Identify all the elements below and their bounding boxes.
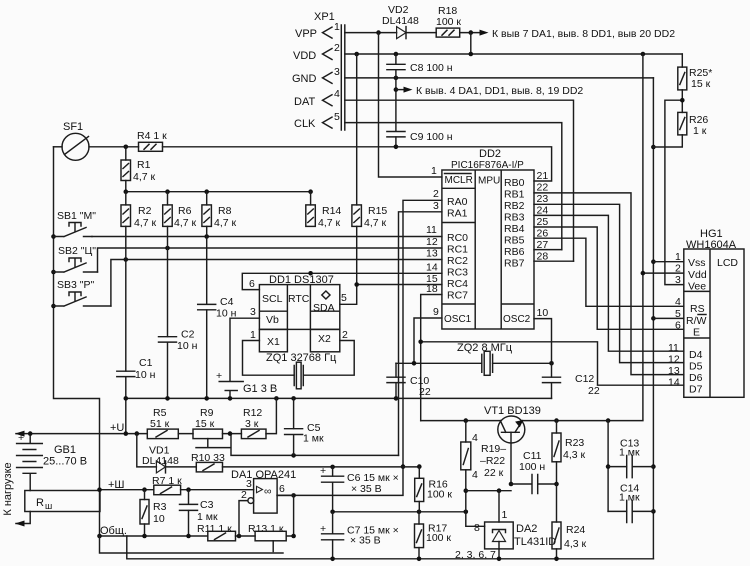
- wire RC7 to D7 line: [421, 295, 684, 421]
- svg-text:VDD: VDD: [293, 50, 316, 62]
- arrow to DA1 DD1 DD2 power: [480, 28, 676, 40]
- svg-text:100 к: 100 к: [426, 532, 451, 544]
- arrow to DA1 DD1 DD2 ground: [396, 85, 584, 97]
- svg-text:RB6: RB6: [504, 246, 525, 258]
- resistor R13 with tap: [248, 523, 286, 552]
- svg-text:4,7 к: 4,7 к: [214, 217, 237, 229]
- wire RA1 column: [399, 212, 442, 456]
- svg-text:51 к: 51 к: [150, 418, 170, 430]
- capacitor C5: [285, 398, 324, 455]
- resistor R18: [436, 5, 461, 37]
- wire main common rail: [126, 397, 552, 399]
- opamp DA1 OPA241: [231, 469, 296, 513]
- svg-text:4,3 к: 4,3 к: [563, 449, 586, 461]
- wire divider tap row: [231, 434, 399, 456]
- svg-text:4: 4: [472, 432, 478, 444]
- capacitor C3: [180, 490, 218, 536]
- wire X2 pin 2 loop: [304, 341, 355, 376]
- svg-text:XP1: XP1: [314, 11, 335, 23]
- IC DD1 DS1307: [259, 274, 339, 352]
- svg-text:4,7 к: 4,7 к: [133, 171, 156, 183]
- wire RC3 line to SCL pin 6: [242, 273, 442, 289]
- svg-text:1 к: 1 к: [693, 125, 707, 137]
- svg-text:OSC1: OSC1: [444, 314, 472, 325]
- wire Vdd pin 2: [643, 272, 684, 274]
- wire RB6 stub: [534, 249, 562, 251]
- wire MCLR pin 1: [379, 33, 442, 177]
- capacitor C14: [608, 483, 653, 523]
- svg-text:3: 3: [246, 478, 252, 490]
- svg-text:VPP: VPP: [295, 28, 317, 40]
- svg-text:R14: R14: [322, 205, 341, 217]
- svg-text:К нагрузке: К нагрузке: [2, 462, 14, 515]
- wire R18 to VDD row: [470, 33, 472, 54]
- svg-text:6: 6: [249, 278, 255, 290]
- resistor R16: [415, 467, 453, 512]
- diode VD2: [382, 4, 419, 39]
- wire GND to C9 column: [395, 78, 397, 131]
- resistor R3: [140, 490, 167, 536]
- svg-text:R1: R1: [137, 159, 151, 171]
- svg-text:1 мк: 1 мк: [619, 492, 640, 504]
- wire RW pin 5: [653, 317, 683, 319]
- svg-text:RC2: RC2: [447, 255, 468, 267]
- svg-text:3: 3: [675, 274, 681, 286]
- battery G1: [216, 370, 277, 398]
- wire Общ rail: [100, 535, 294, 537]
- svg-text:Vdd: Vdd: [688, 269, 707, 281]
- svg-text:+: +: [320, 465, 326, 477]
- svg-text:D7: D7: [689, 384, 703, 396]
- svg-text:R4 1 к: R4 1 к: [137, 130, 167, 142]
- svg-text:15 к: 15 к: [195, 418, 215, 430]
- wire OSC2 pin 10: [534, 319, 552, 364]
- svg-text:C8 100 н: C8 100 н: [410, 62, 453, 74]
- resistor R5: [147, 407, 178, 439]
- svg-text:RB1: RB1: [504, 189, 525, 201]
- wire R2 column to C1: [125, 226, 127, 371]
- svg-text:SCL: SCL: [262, 293, 283, 305]
- resistor R24: [552, 484, 587, 559]
- svg-text:RB3: RB3: [504, 212, 525, 224]
- IC DA2 TL431ID: [455, 522, 556, 561]
- battery GB1: [17, 432, 87, 491]
- wire X1 pin 1 loop: [243, 341, 295, 376]
- svg-text:11: 11: [668, 342, 679, 354]
- resistor network R19-R22: [461, 421, 506, 527]
- wire bottom rail: [127, 536, 654, 559]
- capacitor C12: [543, 363, 600, 398]
- svg-text:LCD: LCD: [717, 257, 738, 269]
- svg-text:1: 1: [334, 21, 340, 33]
- svg-text:22: 22: [588, 385, 600, 397]
- svg-text:C2: C2: [181, 329, 195, 341]
- svg-text:R6: R6: [178, 205, 192, 217]
- wire RB3 to D4: [534, 215, 684, 351]
- svg-text:4,7 к: 4,7 к: [134, 217, 157, 229]
- transistor VT1 BD139: [484, 405, 541, 484]
- capacitor C1: [117, 357, 156, 433]
- resistor R25: [678, 54, 713, 90]
- svg-text:10: 10: [537, 307, 549, 319]
- resistor R11: [197, 523, 236, 541]
- wire VDD long vertical: [642, 54, 644, 420]
- crystal ZQ2 8 МГц: [396, 342, 554, 375]
- svg-text:10 н: 10 н: [135, 369, 156, 381]
- svg-text:25...70 В: 25...70 В: [43, 456, 87, 468]
- svg-text:SF1: SF1: [63, 121, 83, 133]
- svg-text:100 к: 100 к: [427, 489, 452, 501]
- svg-text:RB2: RB2: [504, 200, 525, 212]
- svg-text:4: 4: [675, 296, 681, 308]
- svg-text:DAT: DAT: [294, 96, 315, 108]
- wire SB2 line to RC1: [98, 248, 442, 272]
- wire mid cap row: [333, 511, 466, 513]
- shunt Rш: [15, 491, 100, 527]
- svg-text:15 к: 15 к: [691, 78, 711, 90]
- svg-text:X1: X1: [267, 336, 280, 348]
- svg-text:3: 3: [433, 200, 439, 212]
- wire R6 column to C2: [167, 226, 169, 336]
- svg-text:CLK: CLK: [294, 118, 316, 130]
- wire OSC1 pin 9: [414, 318, 442, 363]
- svg-text:R13 1 к: R13 1 к: [248, 523, 284, 535]
- svg-text:DD2: DD2: [479, 148, 501, 160]
- capacitor C9: [387, 131, 453, 147]
- connector XP1: [292, 11, 345, 130]
- svg-text:4: 4: [334, 88, 340, 100]
- svg-text:R3: R3: [153, 501, 167, 513]
- svg-text:R/W: R/W: [686, 315, 707, 327]
- svg-text:2: 2: [241, 489, 247, 501]
- svg-text:4,7 к: 4,7 к: [174, 217, 197, 229]
- svg-text:1: 1: [675, 251, 681, 263]
- svg-text:Vb: Vb: [266, 314, 279, 326]
- wire RB7 stub: [534, 260, 574, 262]
- capacitor C8: [387, 54, 453, 78]
- wire R26 bottom to GND vertical: [653, 135, 682, 147]
- svg-text:MPU: MPU: [478, 176, 500, 187]
- svg-text:DA2: DA2: [516, 523, 537, 535]
- svg-text:ш: ш: [45, 501, 52, 511]
- svg-text:R11 1 к: R11 1 к: [197, 523, 232, 535]
- resistor R1: [121, 147, 156, 192]
- resistor R2: [121, 192, 157, 229]
- wire R25 R26 junction to Vee: [665, 90, 684, 285]
- switch SF1: [54, 121, 90, 160]
- IC DD2 PIC16F876A: [442, 148, 534, 329]
- wire CLK row to RB6: [345, 123, 562, 250]
- wire R8 column to C4: [206, 226, 208, 304]
- svg-text:4,3 к: 4,3 к: [564, 538, 587, 550]
- svg-text:MCLR: MCLR: [445, 175, 473, 186]
- svg-text:14: 14: [668, 377, 680, 389]
- svg-text:22 к: 22 к: [484, 467, 504, 479]
- resistor R7: [152, 475, 182, 495]
- junction MCLR tap: [376, 30, 381, 35]
- svg-text:R2: R2: [138, 205, 152, 217]
- svg-text:1: 1: [502, 509, 508, 521]
- svg-text:2: 2: [334, 42, 340, 54]
- wire GND long vertical: [652, 78, 654, 559]
- svg-text:SB1 "М": SB1 "М": [57, 210, 96, 222]
- svg-text:12: 12: [668, 354, 680, 366]
- wire VDD row: [345, 53, 683, 55]
- svg-text:R: R: [36, 497, 44, 509]
- diode VD1: [137, 434, 197, 473]
- svg-text:G1 3 В: G1 3 В: [243, 383, 277, 395]
- svg-text:RB5: RB5: [504, 235, 525, 247]
- svg-text:ZQ1 32768 Гц: ZQ1 32768 Гц: [266, 352, 337, 364]
- pushbutton SB2 Ц: [54, 245, 98, 272]
- resistor R14: [306, 192, 342, 229]
- svg-text:C1: C1: [139, 357, 153, 369]
- svg-text:Общ.: Общ.: [100, 525, 127, 537]
- pushbutton SB3 Р: [54, 279, 111, 306]
- wire RA0 column and DA1 out row: [277, 200, 442, 495]
- svg-text:R24: R24: [566, 524, 585, 536]
- svg-text:X2: X2: [318, 333, 331, 345]
- svg-text:GND: GND: [292, 73, 317, 85]
- crystal ZQ1 32768 Гц: [266, 352, 337, 389]
- wire GND row: [345, 77, 654, 79]
- svg-text:DL4148: DL4148: [142, 455, 179, 467]
- svg-text:× 35 В: × 35 В: [351, 483, 382, 495]
- svg-text:∞: ∞: [264, 486, 272, 498]
- svg-text:2: 2: [675, 263, 681, 275]
- wire RB5 to E: [534, 238, 684, 306]
- svg-text:3: 3: [334, 66, 340, 78]
- resistor R17: [415, 512, 452, 559]
- wire VPP row: [345, 32, 480, 34]
- capacitor C6: [320, 465, 399, 512]
- wire DA1 output: [277, 494, 294, 496]
- svg-text:6: 6: [675, 320, 681, 332]
- svg-text:2: 2: [342, 329, 348, 341]
- wire C13 C14 left vertical: [607, 421, 609, 512]
- svg-text:Vee: Vee: [688, 281, 706, 293]
- svg-text:9: 9: [433, 306, 439, 318]
- wire base emitter nodes: [466, 490, 511, 492]
- svg-text:R15: R15: [368, 205, 387, 217]
- svg-text:–R22: –R22: [480, 455, 505, 467]
- wire pullup bus: [126, 191, 311, 193]
- wire lower tap rail: [100, 536, 284, 553]
- svg-text:К выв 7 DA1, выв. 8 DD1, выв: К выв 7 DA1, выв. 8 DD1, выв 20 DD2: [492, 28, 675, 40]
- svg-text:RA0: RA0: [447, 196, 468, 208]
- wire SB3 line to RC2: [111, 260, 442, 307]
- resistor R9 with tap: [193, 407, 231, 448]
- svg-text:4: 4: [472, 469, 478, 481]
- capacitor C2: [159, 329, 198, 399]
- resistor R6: [163, 192, 197, 229]
- svg-text:10: 10: [153, 513, 165, 525]
- svg-text:14: 14: [426, 262, 438, 274]
- wire left common vertical: [54, 147, 100, 536]
- svg-text:RC4: RC4: [447, 278, 468, 290]
- svg-text:RC1: RC1: [447, 244, 468, 256]
- resistor R15: [352, 54, 388, 285]
- wire Vb pin 3 to G1: [230, 318, 259, 381]
- resistor R12: [241, 407, 266, 439]
- svg-text:RB0: RB0: [504, 177, 525, 189]
- wire RB2 to D5: [534, 204, 684, 362]
- wire RC4 line SDA pin 5: [340, 285, 442, 305]
- wire DA2 ref riser: [498, 491, 500, 522]
- resistor R10: [191, 452, 225, 472]
- svg-text:5: 5: [675, 308, 681, 320]
- svg-text:13: 13: [426, 248, 438, 260]
- svg-text:5: 5: [334, 111, 340, 123]
- wire DAT row to RB7: [345, 100, 574, 261]
- svg-text:25: 25: [537, 216, 549, 228]
- svg-text:RC3: RC3: [447, 267, 468, 279]
- svg-text:22: 22: [419, 386, 431, 398]
- junction R18 out: [469, 30, 474, 35]
- svg-text:SDA: SDA: [313, 302, 335, 314]
- svg-text:+Ш: +Ш: [108, 479, 125, 491]
- svg-text:D6: D6: [689, 372, 703, 384]
- svg-text:C3: C3: [200, 499, 214, 511]
- svg-text:+: +: [216, 370, 222, 382]
- svg-text:100 н: 100 н: [519, 461, 545, 473]
- resistor R26: [678, 112, 709, 137]
- svg-text:6: 6: [279, 483, 285, 495]
- wire R10 row to R16: [223, 466, 420, 468]
- pushbutton SB1 М: [54, 210, 97, 237]
- svg-text:2: 2: [433, 188, 439, 200]
- svg-text:GB1: GB1: [54, 444, 76, 456]
- svg-text:8: 8: [474, 522, 480, 534]
- svg-text:1 мк: 1 мк: [619, 447, 640, 459]
- resistor R8: [202, 192, 237, 229]
- svg-text:13: 13: [668, 365, 680, 377]
- svg-text:C4: C4: [220, 296, 234, 308]
- wire +U row: [16, 398, 276, 433]
- svg-text:23: 23: [537, 193, 549, 205]
- wire Vss pin 1: [653, 261, 683, 263]
- resistor R4: [137, 130, 167, 151]
- svg-text:C12: C12: [575, 373, 594, 385]
- capacitor C7: [320, 512, 399, 559]
- capacitor C11: [511, 450, 557, 494]
- svg-text:RS: RS: [690, 303, 705, 315]
- svg-text:R23: R23: [565, 437, 584, 449]
- svg-text:SB3 "Р": SB3 "Р": [57, 279, 94, 291]
- svg-text:1 мк: 1 мк: [303, 433, 324, 445]
- svg-text:12: 12: [426, 236, 438, 248]
- svg-text:3: 3: [250, 306, 256, 318]
- svg-text:21: 21: [537, 170, 549, 182]
- wire DA2 anode to rail: [498, 549, 500, 559]
- wire RB1 to D6: [534, 193, 684, 375]
- svg-text:4,7 к: 4,7 к: [364, 217, 387, 229]
- svg-text:OSC2: OSC2: [503, 314, 531, 325]
- svg-text:11: 11: [426, 224, 437, 236]
- svg-text:C9 100 н: C9 100 н: [410, 131, 453, 143]
- svg-text:D4: D4: [689, 349, 703, 361]
- svg-text:E: E: [693, 327, 700, 339]
- wire collector row: [421, 420, 643, 422]
- svg-text:22: 22: [537, 182, 549, 194]
- svg-text:10 н: 10 н: [177, 340, 198, 352]
- svg-text:5: 5: [341, 292, 347, 304]
- svg-text:К выв. 4 DA1, DD1, выв. 8, 19: К выв. 4 DA1, DD1, выв. 8, 19 DD2: [416, 85, 583, 97]
- svg-text:+U: +U: [110, 422, 124, 434]
- svg-text:1 мк: 1 мк: [197, 511, 218, 523]
- wire +Ш row: [100, 489, 254, 491]
- svg-text:3 к: 3 к: [245, 418, 259, 430]
- resistor R23: [552, 421, 586, 487]
- svg-text:18: 18: [426, 283, 438, 295]
- svg-text:1: 1: [431, 165, 437, 177]
- svg-text:R8: R8: [218, 205, 232, 217]
- svg-text:Vss: Vss: [688, 257, 706, 269]
- svg-text:TL431ID: TL431ID: [514, 536, 556, 548]
- capacitor C4: [198, 296, 237, 398]
- svg-text:R19–: R19–: [481, 443, 506, 455]
- wire DA1 output feedback: [293, 495, 295, 536]
- wire key line SF1 row to RB0: [89, 147, 552, 181]
- wire RB4 to RS: [534, 227, 684, 329]
- wire SB1 line to RC0: [92, 236, 442, 238]
- svg-text:4,7 к: 4,7 к: [318, 217, 341, 229]
- svg-text:100 к: 100 к: [436, 16, 461, 28]
- wire DA1 inverting input feed: [239, 501, 248, 536]
- svg-text:SB2 "Ц": SB2 "Ц": [58, 245, 96, 257]
- svg-text:RTC: RTC: [288, 293, 310, 305]
- svg-text:RC0: RC0: [447, 232, 468, 244]
- svg-text:RA1: RA1: [447, 208, 468, 220]
- svg-text:RB7: RB7: [504, 258, 525, 270]
- svg-text:RB4: RB4: [504, 223, 525, 235]
- svg-text:× 35 В: × 35 В: [350, 535, 381, 547]
- capacitor C10: [387, 363, 431, 398]
- svg-text:1: 1: [250, 329, 256, 341]
- svg-text:DL4148: DL4148: [382, 15, 419, 27]
- capacitor C13: [608, 438, 653, 478]
- svg-text:RC7: RC7: [447, 290, 468, 302]
- IC HG1 WH1604A LCD: [684, 228, 744, 397]
- svg-text:VT1 BD139: VT1 BD139: [484, 405, 541, 417]
- svg-text:D5: D5: [689, 361, 703, 373]
